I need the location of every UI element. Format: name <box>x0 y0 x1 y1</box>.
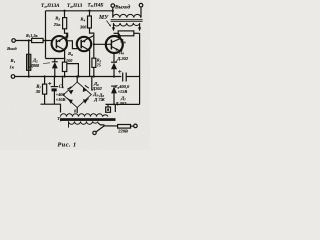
bridge diode BL <box>68 100 73 104</box>
svg-text:Т2,П13: Т2,П13 <box>67 3 83 9</box>
svg-text:R1: R1 <box>11 58 16 64</box>
junction dots on rail <box>28 75 30 77</box>
svg-text:R11,5к: R11,5к <box>26 33 39 39</box>
fuse 220V <box>105 125 118 127</box>
node rail-drop on base wire <box>44 39 46 41</box>
wire T1 emitter up <box>65 33 67 37</box>
wire bottom right bus <box>106 103 140 105</box>
wire bridge top to rail <box>76 77 78 83</box>
wire T3 base <box>94 43 112 45</box>
bridge diode TL <box>69 90 74 95</box>
wire: top-rail drop to base node <box>45 11 47 59</box>
wire bottom left bus <box>41 104 61 112</box>
svg-text:Рис. 1: Рис. 1 <box>58 142 77 149</box>
plus sign C3 <box>118 70 121 73</box>
svg-text:МУ: МУ <box>98 15 109 21</box>
wire winding left tail <box>68 121 70 127</box>
svg-text:8: 8 <box>74 109 76 114</box>
wire T2 emitter down <box>88 50 91 77</box>
svg-text:300: 300 <box>79 25 87 30</box>
input terminal <box>12 39 16 43</box>
output terminal right <box>139 3 143 7</box>
svg-text:30: 30 <box>35 89 41 94</box>
bridge diode BR <box>83 99 88 103</box>
svg-text:220В: 220В <box>117 129 128 134</box>
svg-text:Д808: Д808 <box>29 63 40 68</box>
transistor T3 <box>106 36 123 53</box>
wire zener node horizontal <box>46 58 65 60</box>
svg-text:Вход: Вход <box>6 46 17 51</box>
transformer Tr1 top winding <box>61 114 109 117</box>
transformer Tr1 bottom winding <box>69 121 99 124</box>
wire R6 branch right down <box>67 64 78 77</box>
wire T2 collector join <box>89 36 94 38</box>
wire bridge left feed <box>62 77 64 89</box>
svg-text:Д 7Ж: Д 7Ж <box>93 97 105 102</box>
node: rail R3 junction <box>63 10 65 12</box>
transformer Tr1 core <box>60 118 116 121</box>
svg-text:R3: R3 <box>55 16 60 22</box>
wire T3 collector down <box>113 53 115 63</box>
switch box B <box>107 104 109 107</box>
resistor R6 <box>62 62 66 71</box>
wire bridge right to rail <box>91 77 93 91</box>
node input junction <box>28 39 30 41</box>
svg-text:1к: 1к <box>10 65 15 70</box>
wire secondary left with arrow <box>113 24 115 30</box>
MU arrow <box>107 21 111 27</box>
lower input terminal <box>11 75 15 79</box>
wire secondary right with arrow <box>139 24 141 30</box>
wire bridge bottom stub <box>76 108 78 113</box>
wire input <box>15 40 31 42</box>
resistor R2 <box>28 41 30 54</box>
mains terminal left <box>93 131 96 134</box>
capacitor C4 electrolytic <box>53 77 55 87</box>
wire T3 base node vertical <box>93 44 95 58</box>
svg-text:25к: 25к <box>53 22 61 27</box>
wire box to core <box>114 104 116 112</box>
svg-text:Выход: Выход <box>114 3 131 10</box>
wire T3 emitter up to Rn lead <box>119 33 121 38</box>
plus sign C4 <box>48 82 51 85</box>
node rail to transformer <box>112 10 114 12</box>
svg-text:R4: R4 <box>80 17 85 23</box>
zener diode D2 <box>54 59 56 62</box>
capacitor C3 <box>123 73 127 82</box>
wire right edge down <box>139 33 141 104</box>
wire primary right to switch line <box>98 123 105 125</box>
svg-text:×15В: ×15В <box>118 89 128 94</box>
diode D6 <box>111 63 117 70</box>
diode bridge diamond <box>63 82 91 108</box>
svg-text:Д 302: Д 302 <box>114 101 127 106</box>
output terminal left <box>111 4 115 8</box>
wire T1 to T2 base jog <box>67 36 78 48</box>
svg-text:Д302: Д302 <box>91 86 102 91</box>
diode D7 <box>111 86 117 93</box>
switch blade <box>96 126 105 132</box>
transistor T2 <box>77 37 91 51</box>
resistor Rn load <box>114 32 119 34</box>
transistor T1 <box>52 36 67 51</box>
node: rail R4 junction <box>88 10 90 12</box>
resistor R1 <box>32 38 43 42</box>
resistor R3 <box>64 11 66 18</box>
mains terminal right <box>134 124 138 128</box>
resistor R7 <box>44 77 46 85</box>
top rail wire <box>46 10 113 12</box>
bridge diode TR <box>83 87 87 92</box>
svg-text:R6: R6 <box>68 51 73 57</box>
svg-text:Д.302: Д.302 <box>116 56 129 61</box>
resistor R5 <box>92 58 96 67</box>
svg-text:×10В: ×10В <box>56 97 66 102</box>
resistor R4 <box>89 11 91 16</box>
svg-text:Т1,П13А: Т1,П13А <box>41 3 60 9</box>
transformer Tr2 output <box>112 7 114 17</box>
svg-text:75: 75 <box>97 63 101 68</box>
svg-text:Т3,П4Б: Т3,П4Б <box>88 2 105 8</box>
lower rail wire <box>15 76 122 78</box>
wire T1 collector down <box>64 50 66 62</box>
svg-text:С4: С4 <box>59 85 64 90</box>
